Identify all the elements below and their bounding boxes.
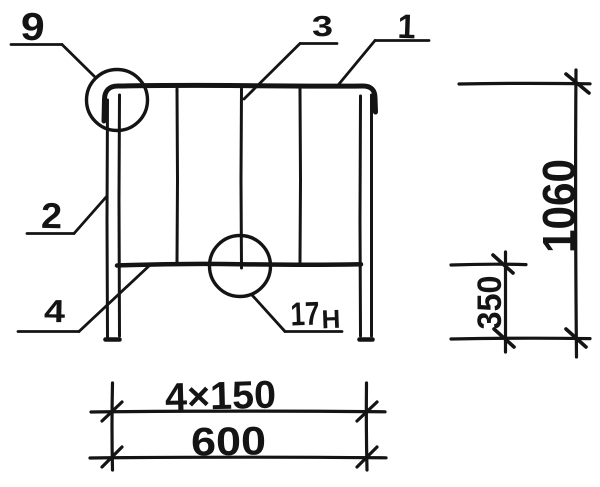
callout 3 underline — [300, 42, 337, 45]
tick 600 left — [102, 447, 122, 467]
svg-text:3: 3 — [311, 11, 333, 44]
dimension line 600 — [90, 456, 386, 460]
dimension line 350 — [504, 252, 507, 352]
right post — [359, 96, 363, 336]
bottom rail — [117, 264, 361, 266]
picket bar middle — [240, 89, 244, 268]
callout 17H leader — [252, 295, 285, 332]
tick at 1060 top — [566, 74, 589, 93]
svg-text:9: 9 — [20, 5, 46, 49]
callout 9 underline — [11, 43, 62, 46]
dimension line 1060 — [574, 70, 578, 357]
callout 2 leader — [74, 196, 107, 234]
tick 4x150 left — [102, 402, 122, 421]
svg-text:2: 2 — [41, 195, 63, 236]
callout 4 leader — [79, 265, 150, 332]
callout 1 underline — [375, 39, 429, 42]
svg-text:350: 350 — [471, 276, 509, 330]
svg-text:4: 4 — [44, 293, 66, 329]
top rail — [104, 85, 376, 121]
left post foot — [106, 337, 120, 342]
callout 9 leader — [62, 45, 95, 77]
dimension line 4x150 — [91, 410, 385, 414]
detail circle top-left — [87, 70, 148, 131]
right post foot — [360, 337, 373, 342]
svg-text:600: 600 — [191, 419, 267, 464]
extension line bottom-right — [365, 383, 369, 470]
tick at 1060 bottom — [566, 329, 586, 347]
extension line top right — [459, 82, 590, 86]
svg-text:17: 17 — [290, 295, 320, 333]
picket bar right — [299, 89, 303, 262]
tick 4x150 right — [357, 402, 377, 421]
extension line bottom right — [451, 337, 590, 341]
svg-text:H: H — [321, 304, 341, 335]
callout 4 underline — [18, 330, 79, 333]
svg-text:1: 1 — [397, 8, 416, 47]
tick at 350 top — [493, 255, 513, 273]
extension line bottom-left — [110, 383, 114, 470]
callout 3 leader — [244, 44, 300, 100]
tick at 350 bottom — [494, 329, 514, 347]
picket bar left — [176, 89, 180, 262]
left post — [106, 100, 110, 337]
extension line middle right — [451, 263, 526, 267]
svg-text:4×150: 4×150 — [164, 374, 276, 420]
tick 600 right — [357, 447, 377, 467]
svg-text:1060: 1060 — [533, 159, 585, 253]
callout 17H underline — [285, 330, 342, 333]
callout 2 underline — [27, 232, 74, 235]
callout 1 leader — [339, 41, 375, 85]
detail circle bottom-middle — [210, 236, 271, 297]
